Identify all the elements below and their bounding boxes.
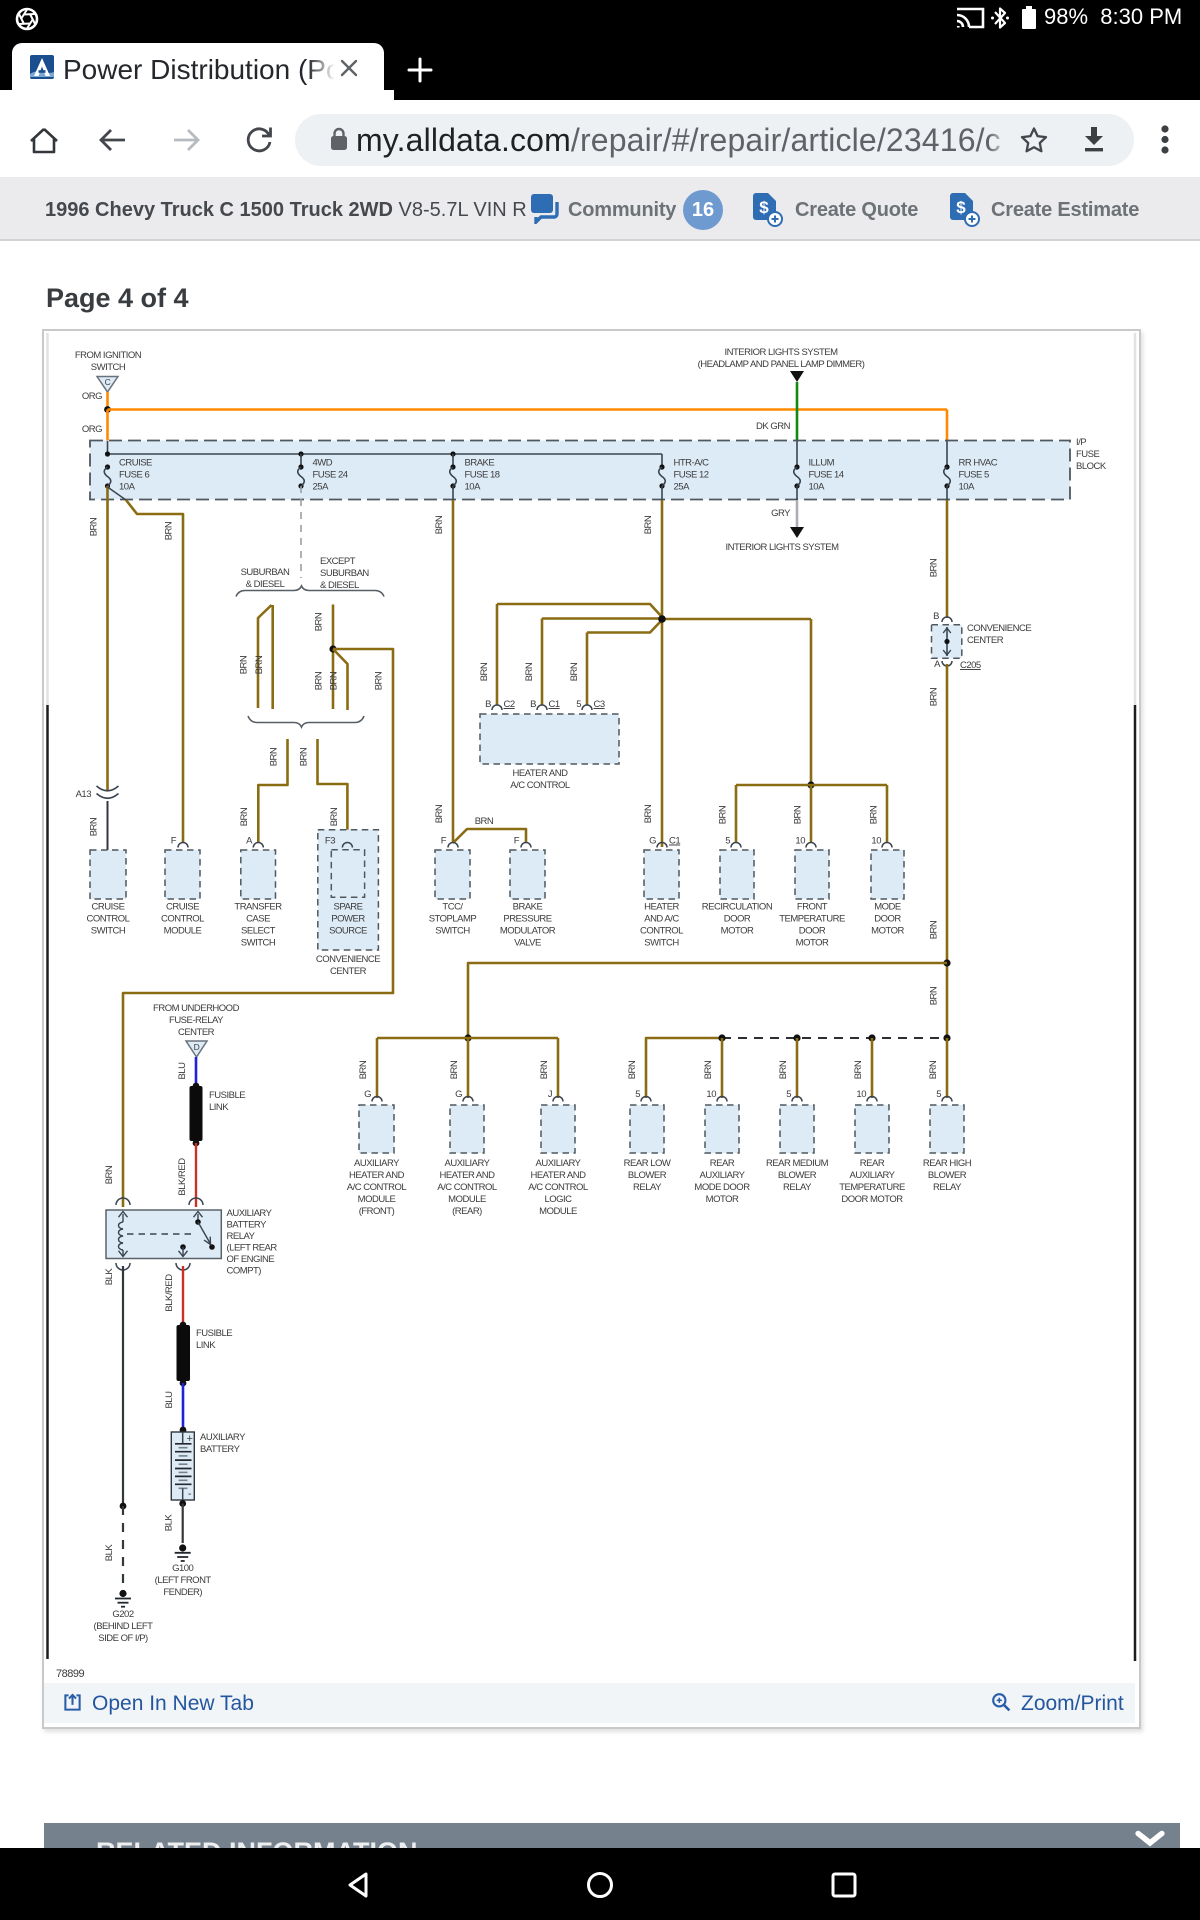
svg-text:G: G bbox=[455, 1089, 462, 1100]
fuse F24 4WD 25A bbox=[298, 464, 303, 469]
svg-text:DK GRN: DK GRN bbox=[756, 421, 791, 432]
svg-text:RELAY: RELAY bbox=[633, 1182, 662, 1193]
svg-text:CENTER: CENTER bbox=[967, 635, 1004, 646]
svg-text:BRN: BRN bbox=[643, 515, 654, 534]
svg-text:ORG: ORG bbox=[82, 391, 102, 402]
node motors junction bbox=[807, 781, 814, 788]
svg-text:INTERIOR LIGHTS SYSTEM: INTERIOR LIGHTS SYSTEM bbox=[724, 347, 838, 358]
svg-text:BLOWER: BLOWER bbox=[628, 1170, 667, 1181]
wire BRN cruise fuse down bbox=[106, 486, 109, 790]
wire BRN rear bus solid bbox=[646, 1038, 722, 1098]
svg-text:F: F bbox=[441, 836, 447, 847]
create estimate icon bbox=[950, 193, 980, 227]
svg-text:& DIESEL: & DIESEL bbox=[246, 579, 285, 590]
svg-text:RELAY: RELAY bbox=[227, 1231, 256, 1242]
create quote icon bbox=[753, 193, 783, 227]
svg-text:LINK: LINK bbox=[196, 1340, 216, 1351]
wire BLK dashed to G202 bbox=[122, 1506, 124, 1590]
svg-text:CRUISE: CRUISE bbox=[119, 458, 152, 469]
svg-text:5: 5 bbox=[725, 836, 730, 847]
svg-text:DOOR: DOOR bbox=[724, 914, 751, 925]
svg-text:BRN: BRN bbox=[449, 1060, 460, 1079]
svg-text:CONTROL: CONTROL bbox=[87, 914, 130, 925]
wire BRN to heater control C2 bbox=[497, 604, 662, 617]
android nav bar bbox=[0, 1848, 1200, 1920]
svg-text:BRN: BRN bbox=[329, 807, 340, 826]
fuse F6 CRUISE 10A bbox=[105, 464, 110, 469]
svg-text:MODE DOOR: MODE DOOR bbox=[694, 1182, 750, 1193]
heater and A/C control U bbox=[492, 705, 502, 710]
svg-text:5: 5 bbox=[576, 699, 581, 710]
svg-text:BLK/RED: BLK/RED bbox=[164, 1274, 175, 1312]
svg-text:MOTOR: MOTOR bbox=[796, 938, 829, 949]
favicon ALLDATA bbox=[30, 55, 54, 79]
svg-text:25A: 25A bbox=[674, 482, 691, 493]
wire rear bus dashed bbox=[722, 1037, 947, 1039]
svg-text:SWITCH: SWITCH bbox=[241, 938, 276, 949]
svg-text:BRN: BRN bbox=[569, 662, 580, 681]
svg-text:BRN: BRN bbox=[718, 805, 729, 824]
wire BRN right run to motors bbox=[662, 618, 811, 621]
svg-text:A13: A13 bbox=[76, 789, 92, 800]
svg-text:C3: C3 bbox=[594, 699, 605, 710]
vehicle info bar bbox=[0, 177, 1200, 241]
svg-text:10A: 10A bbox=[809, 482, 826, 493]
wire BRN cruise to module bbox=[108, 487, 127, 500]
diagram container bbox=[42, 329, 1141, 1729]
svg-text:C1: C1 bbox=[549, 699, 560, 710]
svg-text:G: G bbox=[649, 836, 656, 847]
svg-text:AUXILIARY: AUXILIARY bbox=[850, 1170, 896, 1181]
mode door motor terminal 10 bbox=[882, 843, 892, 848]
forward arrow (disabled) bbox=[170, 124, 202, 156]
rear auxiliary mode door motor terminal 10 bbox=[717, 1097, 727, 1102]
wire ORG horizontal bus bbox=[108, 408, 948, 411]
svg-text:AUXILIARY: AUXILIARY bbox=[700, 1170, 746, 1181]
svg-text:10A: 10A bbox=[465, 482, 482, 493]
svg-text:10: 10 bbox=[871, 836, 881, 847]
svg-text:A/C CONTROL: A/C CONTROL bbox=[347, 1182, 407, 1193]
back arrow bbox=[97, 124, 129, 156]
svg-text:BRN: BRN bbox=[314, 612, 325, 631]
wire ORG to fuse block bbox=[106, 410, 109, 442]
svg-text:A/C CONTROL: A/C CONTROL bbox=[510, 780, 570, 791]
svg-text:J: J bbox=[548, 1089, 553, 1100]
wire BLU to battery bbox=[182, 1383, 185, 1430]
fuse bus wire bbox=[107, 441, 109, 454]
wire BRN rear drops bbox=[721, 1038, 724, 1098]
svg-text:BLK: BLK bbox=[104, 1544, 115, 1562]
battery icon bbox=[1022, 9, 1036, 29]
heater and A/C control switch terminal G C1 bbox=[661, 843, 664, 847]
cruise control module U terminal F bbox=[178, 843, 188, 848]
svg-text:SPARE: SPARE bbox=[333, 902, 362, 913]
wire BRN to heater control C1 bbox=[542, 617, 660, 620]
svg-text:BRN: BRN bbox=[929, 920, 940, 939]
svg-text:BLK/RED: BLK/RED bbox=[177, 1158, 188, 1196]
svg-text:SUBURBAN: SUBURBAN bbox=[320, 568, 369, 579]
svg-text:REAR MEDIUM: REAR MEDIUM bbox=[766, 1158, 829, 1169]
svg-text:F: F bbox=[171, 836, 177, 847]
svg-text:SWITCH: SWITCH bbox=[91, 362, 126, 373]
svg-text:5: 5 bbox=[635, 1089, 640, 1100]
wire BRN brake fuse down bbox=[452, 486, 454, 500]
wire BRN to spare power source bbox=[318, 739, 348, 842]
svg-text:(LEFT FRONT: (LEFT FRONT bbox=[155, 1575, 212, 1586]
svg-text:VALVE: VALVE bbox=[514, 938, 541, 949]
svg-text:LOGIC: LOGIC bbox=[544, 1194, 572, 1205]
svg-text:BRN: BRN bbox=[928, 1060, 939, 1079]
svg-text:BLU: BLU bbox=[177, 1062, 188, 1080]
wire BLK from relay bbox=[122, 1266, 124, 1506]
svg-text:B: B bbox=[530, 699, 536, 710]
svg-text:A/C CONTROL: A/C CONTROL bbox=[528, 1182, 588, 1193]
svg-text:BRN: BRN bbox=[358, 1060, 369, 1079]
svg-text:RECIRCULATION: RECIRCULATION bbox=[702, 902, 773, 913]
auxiliary battery relay bbox=[116, 1198, 130, 1205]
svg-text:CONTROL: CONTROL bbox=[161, 914, 204, 925]
svg-text:FUSE 18: FUSE 18 bbox=[465, 470, 500, 481]
svg-text:BRN: BRN bbox=[929, 986, 940, 1005]
svg-text:FUSIBLE: FUSIBLE bbox=[209, 1090, 245, 1101]
svg-text:MODULE: MODULE bbox=[539, 1206, 577, 1217]
svg-text:AUXILIARY: AUXILIARY bbox=[227, 1208, 273, 1219]
svg-text:F3: F3 bbox=[325, 836, 335, 847]
fusible link 1 bbox=[190, 1086, 203, 1141]
wire BRN to transfer case bbox=[258, 739, 287, 843]
svg-text:BRN: BRN bbox=[434, 515, 445, 534]
svg-text:AUXILIARY: AUXILIARY bbox=[536, 1158, 582, 1169]
node bus junctions bbox=[105, 451, 110, 456]
svg-text:G100: G100 bbox=[172, 1563, 193, 1574]
wire BLK to G100 bbox=[182, 1504, 184, 1544]
svg-text:A: A bbox=[934, 659, 941, 670]
svg-text:PRESSURE: PRESSURE bbox=[503, 914, 551, 925]
open in new tab icon bbox=[63, 1693, 82, 1712]
spare power source terminal F3 bbox=[342, 843, 352, 848]
svg-text:MOTOR: MOTOR bbox=[871, 926, 904, 937]
svg-text:OF ENGINE: OF ENGINE bbox=[227, 1254, 275, 1265]
svg-text:F: F bbox=[514, 836, 520, 847]
svg-text:C205: C205 bbox=[960, 660, 981, 671]
wire BRN motor bus bbox=[736, 784, 887, 787]
svg-text:FUSE 6: FUSE 6 bbox=[119, 470, 149, 481]
svg-text:MOTOR: MOTOR bbox=[706, 1194, 739, 1205]
svg-text:REAR LOW: REAR LOW bbox=[624, 1158, 671, 1169]
svg-text:HTR-A/C: HTR-A/C bbox=[674, 458, 710, 469]
svg-text:AUXILIARY: AUXILIARY bbox=[200, 1432, 246, 1443]
svg-text:G202: G202 bbox=[112, 1609, 133, 1620]
svg-text:RELAY: RELAY bbox=[933, 1182, 962, 1193]
svg-text:5: 5 bbox=[786, 1089, 791, 1100]
fusible link 2 bbox=[177, 1325, 191, 1381]
svg-text:TEMPERATURE: TEMPERATURE bbox=[779, 914, 845, 925]
svg-text:TEMPERATURE: TEMPERATURE bbox=[839, 1182, 905, 1193]
svg-text:EXCEPT: EXCEPT bbox=[320, 556, 356, 567]
svg-text:INTERIOR LIGHTS SYSTEM: INTERIOR LIGHTS SYSTEM bbox=[725, 542, 839, 553]
svg-text:MODULE: MODULE bbox=[358, 1194, 396, 1205]
svg-text:POWER: POWER bbox=[331, 914, 365, 925]
svg-text:BRN: BRN bbox=[524, 662, 535, 681]
ground G202 bbox=[119, 1590, 126, 1597]
svg-text:B: B bbox=[933, 611, 939, 622]
svg-text:FUSE 24: FUSE 24 bbox=[313, 470, 348, 481]
svg-text:BRN: BRN bbox=[89, 517, 100, 536]
rear auxiliary temperature door motor terminal 10 bbox=[867, 1097, 877, 1102]
wire BRN below A13 bbox=[107, 801, 109, 850]
wire BRN aux module bus bbox=[377, 1037, 558, 1040]
svg-text:FUSE: FUSE bbox=[1076, 449, 1100, 460]
ground G100 bbox=[179, 1544, 186, 1551]
svg-text:(FRONT): (FRONT) bbox=[359, 1206, 395, 1217]
brace merge bottom bbox=[248, 716, 364, 727]
Page heading bbox=[46, 283, 189, 314]
svg-text:COMPT): COMPT) bbox=[227, 1266, 262, 1277]
fuse F12 HTR-A/C 25A bbox=[659, 464, 664, 469]
node htr junction bbox=[658, 615, 665, 622]
wire ORG from C bbox=[106, 392, 109, 409]
svg-text:10: 10 bbox=[795, 836, 805, 847]
svg-text:D: D bbox=[194, 1042, 200, 1052]
svg-text:BLOCK: BLOCK bbox=[1076, 461, 1107, 472]
svg-text:DOOR: DOOR bbox=[799, 926, 826, 937]
svg-text:ORG: ORG bbox=[82, 424, 102, 435]
rear high blower relay terminal 5 bbox=[942, 1097, 952, 1102]
svg-text:BRN: BRN bbox=[853, 1060, 864, 1079]
reload bbox=[243, 124, 275, 156]
svg-text:FRONT: FRONT bbox=[797, 902, 828, 913]
svg-text:FUSE-RELAY: FUSE-RELAY bbox=[169, 1015, 224, 1026]
svg-text:25A: 25A bbox=[313, 482, 330, 493]
svg-text:RR HVAC: RR HVAC bbox=[959, 458, 998, 469]
svg-text:A/C CONTROL: A/C CONTROL bbox=[437, 1182, 497, 1193]
wire 4WD fuse dashed drop bbox=[300, 486, 302, 578]
svg-text:BRN: BRN bbox=[329, 671, 340, 690]
svg-text:CENTER: CENTER bbox=[178, 1027, 215, 1038]
svg-text:BATTERY: BATTERY bbox=[200, 1444, 241, 1455]
svg-text:BLU: BLU bbox=[164, 1391, 175, 1409]
wire BRN suburban pair bbox=[258, 605, 272, 708]
aux heater A/C control module rear terminal G bbox=[463, 1097, 473, 1102]
svg-text:C1: C1 bbox=[669, 836, 680, 847]
transfer case select switch terminal A bbox=[253, 843, 263, 848]
svg-text:STOPLAMP: STOPLAMP bbox=[429, 914, 477, 925]
svg-text:4WD: 4WD bbox=[313, 458, 333, 469]
zoom/print bbox=[991, 1692, 1012, 1713]
svg-text:TCC/: TCC/ bbox=[442, 902, 463, 913]
node split junction bbox=[329, 645, 336, 652]
svg-text:SWITCH: SWITCH bbox=[644, 938, 679, 949]
svg-text:BRN: BRN bbox=[869, 805, 880, 824]
svg-text:BRN: BRN bbox=[374, 671, 385, 690]
community chat icon bbox=[531, 194, 563, 224]
wire BRN except-suburban bbox=[332, 605, 335, 710]
svg-text:MOTOR: MOTOR bbox=[721, 926, 754, 937]
svg-text:BRN: BRN bbox=[299, 747, 310, 766]
svg-text:C2: C2 bbox=[504, 699, 515, 710]
wire BRN to heater control C3 bbox=[587, 621, 661, 633]
svg-text:CRUISE: CRUISE bbox=[92, 902, 125, 913]
aux heater A/C control module front terminal G bbox=[372, 1097, 382, 1102]
wire BRN htr-ac fuse down bbox=[661, 486, 663, 500]
svg-text:10: 10 bbox=[856, 1089, 866, 1100]
star bbox=[1018, 124, 1050, 156]
svg-text:10A: 10A bbox=[959, 482, 976, 493]
footer bar of container bbox=[44, 1683, 1135, 1723]
svg-text:FROM UNDERHOOD: FROM UNDERHOOD bbox=[153, 1003, 240, 1014]
auxiliary battery bbox=[171, 1432, 194, 1500]
svg-text:AND A/C: AND A/C bbox=[644, 914, 679, 925]
TCC stoplamp switch terminal F bbox=[448, 843, 458, 848]
front temperature door motor terminal 10 bbox=[806, 843, 816, 848]
svg-text:GRY: GRY bbox=[771, 508, 791, 519]
svg-text:SWITCH: SWITCH bbox=[91, 926, 126, 937]
rear low blower relay terminal 5 bbox=[641, 1097, 651, 1102]
cast icon bbox=[955, 6, 985, 30]
svg-text:BATTERY: BATTERY bbox=[227, 1220, 268, 1231]
svg-text:BRN: BRN bbox=[89, 817, 100, 836]
lock bbox=[330, 127, 348, 151]
svg-text:BLOWER: BLOWER bbox=[778, 1170, 817, 1181]
svg-text:BRN: BRN bbox=[703, 1060, 714, 1079]
wire BRN rr hvac down bbox=[946, 486, 948, 500]
tab bar bbox=[0, 35, 1200, 100]
svg-text:BRN: BRN bbox=[929, 558, 940, 577]
svg-text:A: A bbox=[246, 836, 253, 847]
svg-text:(REAR): (REAR) bbox=[452, 1206, 482, 1217]
svg-text:B: B bbox=[485, 699, 491, 710]
I/P fuse block bbox=[90, 441, 1070, 500]
svg-text:10A: 10A bbox=[119, 482, 136, 493]
svg-text:HEATER AND: HEATER AND bbox=[439, 1170, 495, 1181]
svg-text:REAR: REAR bbox=[710, 1158, 735, 1169]
svg-text:FUSIBLE: FUSIBLE bbox=[196, 1328, 232, 1339]
svg-text:C: C bbox=[105, 377, 111, 387]
wire BRN brake jumper bbox=[453, 829, 526, 843]
scan page left edge bbox=[46, 333, 49, 705]
svg-text:BLK: BLK bbox=[104, 1268, 115, 1286]
svg-text:BRN: BRN bbox=[239, 655, 250, 674]
recirculation door motor terminal 5 bbox=[731, 843, 741, 848]
node rear bus junctions bbox=[718, 1034, 725, 1041]
svg-text:BRN: BRN bbox=[239, 807, 250, 826]
svg-text:BRN: BRN bbox=[929, 687, 940, 706]
wire DK GRN bbox=[796, 382, 799, 441]
svg-text:FENDER): FENDER) bbox=[163, 1587, 202, 1598]
wire BRN branch diag bbox=[333, 649, 348, 710]
svg-text:BRN: BRN bbox=[793, 805, 804, 824]
svg-text:BRN: BRN bbox=[314, 671, 325, 690]
convenience center outer box bbox=[318, 830, 379, 950]
node ORG junction bbox=[104, 406, 111, 413]
wire BRN below C205 bbox=[946, 664, 949, 1038]
svg-text:HEATER AND: HEATER AND bbox=[530, 1170, 586, 1181]
svg-text:(LEFT REAR: (LEFT REAR bbox=[227, 1243, 278, 1254]
svg-text:HEATER AND: HEATER AND bbox=[512, 768, 568, 779]
svg-text:MODULATOR: MODULATOR bbox=[500, 926, 556, 937]
svg-text:5: 5 bbox=[936, 1089, 941, 1100]
svg-text:AUXILIARY: AUXILIARY bbox=[354, 1158, 400, 1169]
svg-text:CONVENIENCE: CONVENIENCE bbox=[967, 623, 1031, 634]
download bbox=[1078, 124, 1110, 156]
svg-text:FROM IGNITION: FROM IGNITION bbox=[75, 350, 142, 361]
svg-text:FUSE 5: FUSE 5 bbox=[959, 470, 989, 481]
svg-text:MODULE: MODULE bbox=[164, 926, 202, 937]
wire BRN to spare power feed bbox=[123, 649, 393, 1207]
connector A13 bbox=[97, 786, 119, 791]
svg-text:ILLUM: ILLUM bbox=[809, 458, 835, 469]
svg-text:TRANSFER: TRANSFER bbox=[234, 902, 282, 913]
svg-text:REAR HIGH: REAR HIGH bbox=[923, 1158, 972, 1169]
svg-text:(HEADLAMP AND PANEL LAMP DIMME: (HEADLAMP AND PANEL LAMP DIMMER) bbox=[698, 359, 865, 370]
svg-text:HEATER AND: HEATER AND bbox=[349, 1170, 405, 1181]
svg-text:BRN: BRN bbox=[539, 1060, 550, 1079]
svg-text:BLOWER: BLOWER bbox=[928, 1170, 967, 1181]
svg-text:DOOR: DOOR bbox=[874, 914, 901, 925]
svg-text:BRAKE: BRAKE bbox=[465, 458, 495, 469]
svg-text:BRN: BRN bbox=[434, 804, 445, 823]
svg-text:G: G bbox=[364, 1089, 371, 1100]
rear medium blower relay terminal 5 bbox=[792, 1097, 802, 1102]
svg-text:BLK: BLK bbox=[164, 1514, 175, 1532]
aux heater A/C control logic module terminal J bbox=[553, 1097, 563, 1102]
fuse F5 RR HVAC 10A bbox=[944, 464, 949, 469]
svg-text:SELECT: SELECT bbox=[241, 926, 276, 937]
svg-text:BRN: BRN bbox=[627, 1060, 638, 1079]
cruise control switch U bbox=[90, 850, 126, 899]
svg-text:BRN: BRN bbox=[778, 1060, 789, 1079]
svg-text:HEATER: HEATER bbox=[644, 902, 679, 913]
svg-text:REAR: REAR bbox=[860, 1158, 885, 1169]
svg-text:BRN: BRN bbox=[643, 804, 654, 823]
brace split top bbox=[236, 586, 384, 597]
svg-text:BRN: BRN bbox=[479, 662, 490, 681]
svg-text:BRN: BRN bbox=[269, 747, 280, 766]
wire BRN to aux modules bbox=[468, 963, 947, 1038]
svg-text:LINK: LINK bbox=[209, 1102, 229, 1113]
wire GRY to interior lights bbox=[796, 486, 798, 500]
svg-text:CONTROL: CONTROL bbox=[640, 926, 683, 937]
node aux modules junction bbox=[464, 1034, 471, 1041]
wire BLU bbox=[195, 1057, 198, 1086]
url toolbar bbox=[0, 100, 1200, 178]
svg-text:FUSE 12: FUSE 12 bbox=[674, 470, 709, 481]
brake pressure modulator valve terminal F bbox=[521, 843, 531, 848]
svg-text:DOOR MOTOR: DOOR MOTOR bbox=[841, 1194, 903, 1205]
node BLK junction bbox=[120, 1503, 127, 1510]
svg-text:CASE: CASE bbox=[246, 914, 270, 925]
fuse F18 BRAKE 10A bbox=[450, 464, 455, 469]
svg-text:& DIESEL: & DIESEL bbox=[320, 580, 359, 591]
fuse F14 ILLUM 10A bbox=[794, 464, 799, 469]
bluetooth icon bbox=[990, 5, 1010, 31]
svg-text:(BEHIND LEFT: (BEHIND LEFT bbox=[94, 1621, 154, 1632]
svg-text:10: 10 bbox=[706, 1089, 716, 1100]
related information bar bbox=[44, 1823, 1180, 1848]
status bar bbox=[0, 0, 1200, 35]
svg-text:BRN: BRN bbox=[104, 1165, 115, 1184]
svg-text:SOURCE: SOURCE bbox=[329, 926, 367, 937]
wire BLK/RED from relay bbox=[182, 1266, 184, 1324]
svg-text:CENTER: CENTER bbox=[330, 966, 367, 977]
svg-text:RELAY: RELAY bbox=[783, 1182, 812, 1193]
svg-text:CRUISE: CRUISE bbox=[166, 902, 199, 913]
svg-text:FUSE 14: FUSE 14 bbox=[809, 470, 844, 481]
tab bbox=[12, 43, 384, 100]
svg-text:BRN: BRN bbox=[475, 816, 494, 827]
svg-text:BRN: BRN bbox=[164, 521, 175, 540]
3 dots bbox=[1157, 124, 1173, 158]
